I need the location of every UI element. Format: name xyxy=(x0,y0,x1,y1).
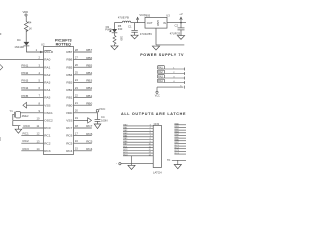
svg-text:RB0: RB0 xyxy=(66,103,72,107)
svg-text:RB7: RB7 xyxy=(86,48,92,52)
svg-text:VDD: VDD xyxy=(22,10,28,14)
svg-text:330: 330 xyxy=(119,36,123,41)
svg-text:RC7: RC7 xyxy=(66,126,72,130)
svg-text:RC2: RC2 xyxy=(23,139,29,143)
svg-text:D4: D4 xyxy=(17,38,21,42)
svg-text:*: * xyxy=(116,164,117,166)
svg-text:RA0: RA0 xyxy=(44,58,50,62)
svg-text:PWR: PWR xyxy=(105,27,111,31)
svg-text:RB2: RB2 xyxy=(66,88,72,92)
svg-text:25: 25 xyxy=(75,71,78,75)
svg-text:17: 17 xyxy=(75,131,78,135)
svg-text:PIN2: PIN2 xyxy=(21,71,28,75)
svg-text:RC0: RC0 xyxy=(44,126,50,130)
svg-text:VCC: VCC xyxy=(155,95,160,98)
svg-text:U2: U2 xyxy=(41,43,45,47)
svg-text:330: 330 xyxy=(118,27,123,31)
svg-text:Y1: Y1 xyxy=(10,109,14,113)
svg-text:RC4: RC4 xyxy=(86,147,92,151)
svg-text:20: 20 xyxy=(75,109,78,113)
svg-text:+V: +V xyxy=(179,12,183,16)
svg-text:7805: 7805 xyxy=(144,13,150,17)
svg-text:RC1: RC1 xyxy=(44,134,50,138)
svg-text:7: 7 xyxy=(150,135,151,137)
svg-text:RC3: RC3 xyxy=(44,149,50,153)
svg-text:CN3: CN3 xyxy=(154,122,160,126)
svg-text:VCC: VCC xyxy=(99,107,106,111)
svg-text:RB6: RB6 xyxy=(66,58,72,62)
svg-text:27: 27 xyxy=(75,55,78,59)
svg-text:RA5: RA5 xyxy=(44,96,50,100)
svg-text:13: 13 xyxy=(149,152,151,154)
svg-text:100N: 100N xyxy=(101,119,107,123)
svg-text:RC6: RC6 xyxy=(86,132,92,136)
svg-text:RA3: RA3 xyxy=(44,81,50,85)
svg-text:21: 21 xyxy=(75,101,78,105)
svg-text:9: 9 xyxy=(150,141,151,143)
svg-text:12: 12 xyxy=(149,149,151,151)
svg-text:RA4: RA4 xyxy=(44,88,50,92)
svg-text:RC3: RC3 xyxy=(23,147,29,151)
svg-text:GND: GND xyxy=(156,20,160,26)
svg-text:OSC1: OSC1 xyxy=(44,111,53,115)
svg-text:RC6: RC6 xyxy=(66,134,72,138)
svg-text:OUT: OUT xyxy=(147,21,153,25)
svg-text:VSS: VSS xyxy=(44,103,50,107)
svg-text:8: 8 xyxy=(150,138,151,140)
svg-text:RA2: RA2 xyxy=(44,73,50,77)
svg-text:MCLR: MCLR xyxy=(44,50,54,54)
svg-text:10: 10 xyxy=(149,144,151,146)
svg-text:VDD: VDD xyxy=(66,111,73,115)
svg-text:VSS: VSS xyxy=(66,119,72,123)
svg-text:15: 15 xyxy=(75,147,78,151)
svg-text:RC5: RC5 xyxy=(86,139,92,143)
svg-text:RB2: RB2 xyxy=(86,86,92,90)
svg-text:12: 12 xyxy=(37,132,40,136)
svg-text:3: 3 xyxy=(150,125,151,127)
svg-text:5: 5 xyxy=(150,130,151,132)
svg-text:RA1: RA1 xyxy=(44,65,50,69)
svg-text:RC5: RC5 xyxy=(66,141,72,145)
svg-text:C2: C2 xyxy=(175,23,179,27)
svg-text:RB3: RB3 xyxy=(86,79,92,83)
svg-text:TO: TO xyxy=(167,159,170,162)
svg-text:47UE FB: 47UE FB xyxy=(118,16,129,20)
svg-text:47UF/25V: 47UF/25V xyxy=(140,32,152,36)
svg-text:RB5: RB5 xyxy=(86,63,92,67)
svg-text:RC4: RC4 xyxy=(66,149,72,153)
svg-text:C1: C1 xyxy=(128,25,132,29)
svg-text:PIN3: PIN3 xyxy=(21,79,28,83)
svg-text:10: 10 xyxy=(37,117,40,121)
svg-text:RB3: RB3 xyxy=(66,81,72,85)
svg-text:14: 14 xyxy=(37,147,40,151)
svg-text:4: 4 xyxy=(150,127,151,129)
svg-text:RC0: RC0 xyxy=(24,124,30,128)
svg-text:13: 13 xyxy=(37,139,40,143)
svg-text:PIN5: PIN5 xyxy=(21,94,28,98)
svg-text:U3: U3 xyxy=(166,13,170,17)
svg-text:RB4: RB4 xyxy=(66,73,72,77)
svg-text:47UF/25: 47UF/25 xyxy=(170,32,181,36)
svg-text:1K: 1K xyxy=(29,26,32,30)
svg-text:24: 24 xyxy=(75,78,78,82)
svg-text:14: 14 xyxy=(149,154,151,156)
svg-text:RA1: RA1 xyxy=(158,66,163,69)
svg-text:RA4: RA4 xyxy=(158,80,163,83)
svg-text:RB5: RB5 xyxy=(66,65,72,69)
svg-text:RB1: RB1 xyxy=(66,96,72,100)
svg-text:RB1: RB1 xyxy=(86,94,92,98)
svg-text:ALL OUTPUTS ARE LATCHED: ALL OUTPUTS ARE LATCHED xyxy=(121,112,186,116)
svg-text:28: 28 xyxy=(75,48,78,52)
svg-text:26: 26 xyxy=(75,63,78,67)
svg-text:RB7: RB7 xyxy=(66,50,72,54)
svg-text:OSC2: OSC2 xyxy=(44,119,53,123)
svg-text:18: 18 xyxy=(75,124,78,128)
svg-text:ROTTEQ: ROTTEQ xyxy=(56,42,71,46)
svg-text:RC2: RC2 xyxy=(44,141,50,145)
svg-text:22: 22 xyxy=(75,93,78,97)
svg-text:RB4: RB4 xyxy=(86,71,92,75)
svg-text:11: 11 xyxy=(149,146,151,148)
svg-text:1N4148: 1N4148 xyxy=(14,45,24,49)
svg-text:IN: IN xyxy=(163,21,166,25)
svg-text:RC7: RC7 xyxy=(86,124,92,128)
svg-text:R4: R4 xyxy=(28,21,32,25)
svg-text:RC1: RC1 xyxy=(23,132,29,136)
svg-text:RB0: RB0 xyxy=(86,101,92,105)
svg-text:POWER SUPPLY 7V: POWER SUPPLY 7V xyxy=(140,53,184,57)
svg-text:4MHz: 4MHz xyxy=(22,114,30,118)
svg-text:LATCH: LATCH xyxy=(153,171,162,174)
svg-text:RA2: RA2 xyxy=(158,71,163,74)
svg-text:PIN4: PIN4 xyxy=(21,86,28,90)
svg-text:RA3: RA3 xyxy=(158,75,163,78)
svg-text:19: 19 xyxy=(75,116,78,120)
svg-text:PIN1: PIN1 xyxy=(21,63,28,67)
svg-text:16: 16 xyxy=(75,139,78,143)
svg-text:23: 23 xyxy=(75,86,78,90)
svg-text:6: 6 xyxy=(150,133,151,135)
svg-text:RB6: RB6 xyxy=(86,56,92,60)
